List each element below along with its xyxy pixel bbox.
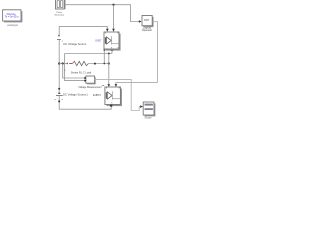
node VM plus tap: [62, 62, 64, 64]
wire NOT output down right side to IGBT1 gate: [116, 22, 157, 85]
svg-text:powergui: powergui: [7, 23, 18, 27]
arrow into IGBT collector: [106, 29, 109, 32]
node colored specks near IGBT1: [101, 84, 104, 87]
arrow into IGBT1 gate: [115, 84, 118, 87]
wire left rail top: [59, 26, 107, 35]
svg-text:IGBT1: IGBT1: [93, 93, 102, 97]
wire left rail middle: [58, 40, 60, 93]
svg-text:Generator: Generator: [54, 13, 64, 16]
svg-text:DC Voltage Source1: DC Voltage Source1: [63, 93, 88, 97]
wire midpoint trunk: [108, 54, 110, 85]
igbt U2 bottom block: [105, 87, 122, 106]
wire IGBT emitter terminal to load: [103, 50, 105, 64]
powergui block: [3, 10, 23, 23]
voltage measurement block: [84, 76, 95, 84]
arrow into IGBT gate: [112, 29, 115, 32]
node red speck: [64, 70, 65, 71]
arrow into IGBT1 collector: [108, 84, 111, 87]
wire VM plus riser: [63, 64, 85, 79]
svg-text:Scope: Scope: [144, 116, 152, 120]
wire gate of IGBT: [113, 5, 115, 30]
logical operator U-NOT block: [142, 16, 154, 28]
svg-text:DC Voltage Source: DC Voltage Source: [63, 42, 86, 46]
arrow into NOT input: [139, 20, 142, 23]
scope block: [143, 102, 155, 116]
svg-text:Voltage Measurement: Voltage Measurement: [78, 86, 102, 89]
wire pulse output to NOT input: [64, 5, 140, 22]
wire left rail bottom and bottom rail: [59, 95, 111, 109]
node junction on gate wire: [112, 4, 114, 6]
dc voltage source DC Voltage Source: [57, 35, 63, 42]
node load right junction: [108, 62, 110, 64]
node sense junction: [108, 53, 110, 55]
wire emitter sense line: [65, 53, 112, 55]
wire IGBT emitter stub: [111, 50, 113, 54]
svg-text:IGBT: IGBT: [95, 38, 102, 42]
arrow into scope: [140, 105, 143, 108]
dc voltage source DC Voltage Source1: [55, 93, 63, 100]
series rlc branch Series RL C Load: [67, 61, 109, 65]
svg-text:Operator: Operator: [142, 28, 152, 32]
wire VM output to scope: [95, 79, 141, 110]
pulse generator Pulse Generator: [56, 0, 66, 9]
wire VM minus sense riser: [65, 54, 85, 81]
svg-text:NOT: NOT: [144, 19, 150, 22]
node source1 bottom port: [58, 100, 60, 102]
svg-text:Ts = 5e-05 s.: Ts = 5e-05 s.: [5, 15, 20, 19]
node between sources: [58, 88, 60, 90]
node rail-load junction: [58, 62, 60, 64]
svg-text:Series RL C Load: Series RL C Load: [71, 70, 92, 74]
igbt U1 top block: [104, 32, 121, 51]
igbt U2 bottom port: [110, 105, 112, 107]
wire load wire left: [59, 63, 68, 65]
